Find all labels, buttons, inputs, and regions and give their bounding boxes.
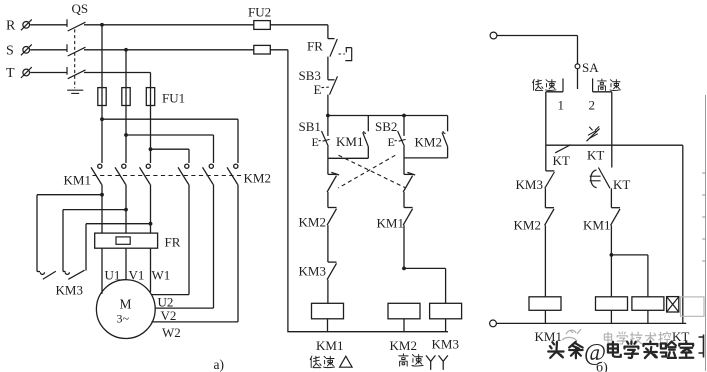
fuse FU2 bbox=[248, 5, 328, 55]
motor terminal labels U1 V1 W1 bbox=[105, 268, 171, 283]
wire phase drops to FU1 bbox=[102, 25, 151, 88]
mechanical linkage dashes KM1 KM2 bbox=[93, 175, 244, 177]
svg-text:KM1: KM1 bbox=[583, 218, 610, 233]
svg-text:KM3: KM3 bbox=[299, 264, 326, 279]
svg-text:FR: FR bbox=[307, 39, 323, 54]
svg-text:3~: 3~ bbox=[117, 312, 130, 326]
mechanical linkage X dashes bbox=[338, 155, 406, 188]
svg-text:KM2: KM2 bbox=[390, 338, 417, 353]
label b) bbox=[596, 361, 608, 372]
interlock contact KM3 NC bbox=[299, 225, 337, 280]
svg-text:FR: FR bbox=[165, 235, 181, 250]
motor terminal labels U2 V2 W2 bbox=[158, 295, 181, 341]
svg-text:SA: SA bbox=[582, 60, 599, 75]
wire SB2 block bottom bbox=[404, 157, 448, 159]
push button SB3 (stop) bbox=[299, 68, 338, 116]
svg-text:U1: U1 bbox=[105, 268, 121, 283]
wire T bus after QS bbox=[84, 72, 151, 74]
wire S to QS bbox=[30, 49, 66, 51]
svg-text:SB1: SB1 bbox=[299, 119, 321, 134]
disconnect switch QS bbox=[67, 1, 88, 93]
node terminal top b bbox=[490, 32, 577, 64]
cropped neighbour circuit edge artifacts bbox=[702, 95, 705, 371]
svg-text:FU1: FU1 bbox=[162, 91, 185, 106]
thermal relay contact FR bbox=[307, 39, 352, 80]
contactor main contacts KM1 bbox=[64, 164, 151, 187]
interlock contact KM1 NC bbox=[377, 192, 413, 231]
label a) bbox=[214, 357, 225, 372]
wire control top bus bbox=[326, 114, 448, 118]
motor M bbox=[96, 280, 155, 339]
interlock contact KM2 NC bbox=[299, 192, 337, 230]
wire R bus after QS bbox=[84, 23, 254, 27]
thermal relay FR heaters bbox=[95, 233, 181, 249]
svg-text:E: E bbox=[388, 135, 395, 149]
svg-text:R: R bbox=[6, 19, 16, 34]
watermark logo remnant gray bbox=[562, 329, 581, 341]
svg-text:KM2: KM2 bbox=[299, 215, 326, 230]
svg-text:KM3: KM3 bbox=[56, 283, 83, 298]
wire T to QS bbox=[30, 72, 66, 74]
svg-text:KT: KT bbox=[587, 148, 604, 163]
interlock contact SB1-NC in branch 2 bbox=[403, 158, 415, 192]
label low speed delta bbox=[310, 356, 352, 368]
wire KM2 pole bottoms to U2 V2 W2 bbox=[151, 185, 238, 322]
svg-text:W2: W2 bbox=[162, 325, 181, 340]
svg-text:KM3: KM3 bbox=[516, 177, 543, 192]
watermark gray text bbox=[604, 297, 704, 344]
svg-text:E: E bbox=[314, 82, 322, 97]
svg-text:KM2: KM2 bbox=[244, 171, 271, 186]
svg-text:M: M bbox=[120, 297, 132, 312]
coil KM2 (b) bbox=[596, 297, 628, 324]
wire SB1 block bottom bbox=[328, 157, 368, 159]
svg-text:KM2: KM2 bbox=[415, 135, 442, 150]
contactor star contacts KM3 bbox=[37, 270, 85, 297]
interlock contact SB2-NC in branch 1 bbox=[327, 158, 339, 192]
fuse FU1 bbox=[98, 88, 185, 106]
node T bbox=[6, 66, 32, 81]
svg-text:KM1: KM1 bbox=[377, 216, 404, 231]
push button SB1 (start low) bbox=[299, 116, 330, 159]
label high speed (SA pos 2) bbox=[589, 79, 621, 113]
selector switch SA bbox=[546, 60, 612, 92]
watermark edge fragment bbox=[699, 335, 704, 358]
wire control feed down bbox=[327, 25, 329, 39]
svg-text:S: S bbox=[6, 44, 14, 59]
svg-text:QS: QS bbox=[72, 1, 89, 16]
wire S bus after QS bbox=[84, 48, 254, 52]
wire R to QS bbox=[30, 24, 66, 26]
wire FR to motor bbox=[102, 248, 151, 294]
svg-text:2: 2 bbox=[589, 98, 596, 113]
contactor main contacts KM2 bbox=[178, 164, 271, 185]
node S bbox=[6, 44, 32, 59]
svg-text:KM1: KM1 bbox=[336, 134, 363, 149]
coil KM3 bbox=[430, 303, 462, 351]
wire right rail (b) bbox=[682, 145, 684, 323]
svg-text:a): a) bbox=[214, 357, 225, 372]
push button SB2 (start high) bbox=[375, 116, 406, 158]
timer delayed contact KT (delayed closing, arc) bbox=[590, 168, 631, 193]
svg-text:W1: W1 bbox=[152, 268, 171, 283]
auxiliary contact KM1 (seal-in) bbox=[336, 116, 368, 159]
coil KM1 bbox=[312, 280, 344, 353]
timer contact KT (instantaneous, on horizontal run) bbox=[546, 145, 683, 168]
svg-text:V2: V2 bbox=[161, 308, 177, 323]
watermark dark text bbox=[548, 340, 693, 366]
coil KM1 (b) bbox=[529, 297, 562, 344]
coil KM3 (b) bbox=[632, 297, 664, 324]
svg-text:KM2: KM2 bbox=[514, 218, 541, 233]
svg-text:KT: KT bbox=[553, 153, 570, 168]
svg-text:SB2: SB2 bbox=[375, 119, 397, 134]
wire SA pos2 down bbox=[611, 92, 613, 168]
wire branch 2 to coils bbox=[402, 225, 446, 303]
node R bbox=[6, 19, 32, 34]
svg-text:1: 1 bbox=[558, 98, 565, 113]
svg-text:@: @ bbox=[584, 340, 606, 366]
interlock contact KM2 NC (b) bbox=[514, 208, 555, 297]
label low speed (SA pos 1) bbox=[533, 79, 564, 112]
coil KT (b) bbox=[667, 297, 690, 344]
wire FU1 outputs / crossover to KM2 bbox=[100, 106, 238, 164]
svg-text:V1: V1 bbox=[129, 268, 145, 283]
svg-text:KM1: KM1 bbox=[316, 338, 343, 353]
svg-text:KM3: KM3 bbox=[432, 337, 459, 352]
wire taps to KM3 star contacts bbox=[37, 195, 151, 272]
svg-text:E: E bbox=[312, 135, 319, 149]
interlock contact KM1 NC (b) bbox=[583, 188, 620, 232]
svg-text:T: T bbox=[6, 66, 15, 81]
svg-text:KM1: KM1 bbox=[64, 173, 91, 188]
svg-text:KT: KT bbox=[613, 177, 630, 192]
contact KM3 NO (b) bbox=[516, 145, 555, 208]
svg-text:FU2: FU2 bbox=[248, 5, 271, 20]
label high speed YY bbox=[399, 354, 448, 370]
svg-text:SB3: SB3 bbox=[299, 68, 321, 83]
wire SA pos1 down bbox=[545, 92, 547, 145]
timer delayed contact KT (NC, delay marks) bbox=[587, 126, 605, 162]
wire branch2 to coils (b) bbox=[610, 225, 648, 296]
wire KM1 pole bottoms bbox=[100, 185, 152, 234]
auxiliary contact KM2 (seal-in) bbox=[415, 116, 448, 158]
wire control left rail from FU2 bbox=[288, 50, 448, 332]
node terminal bottom b bbox=[490, 320, 687, 327]
coil KM2 bbox=[388, 303, 420, 353]
